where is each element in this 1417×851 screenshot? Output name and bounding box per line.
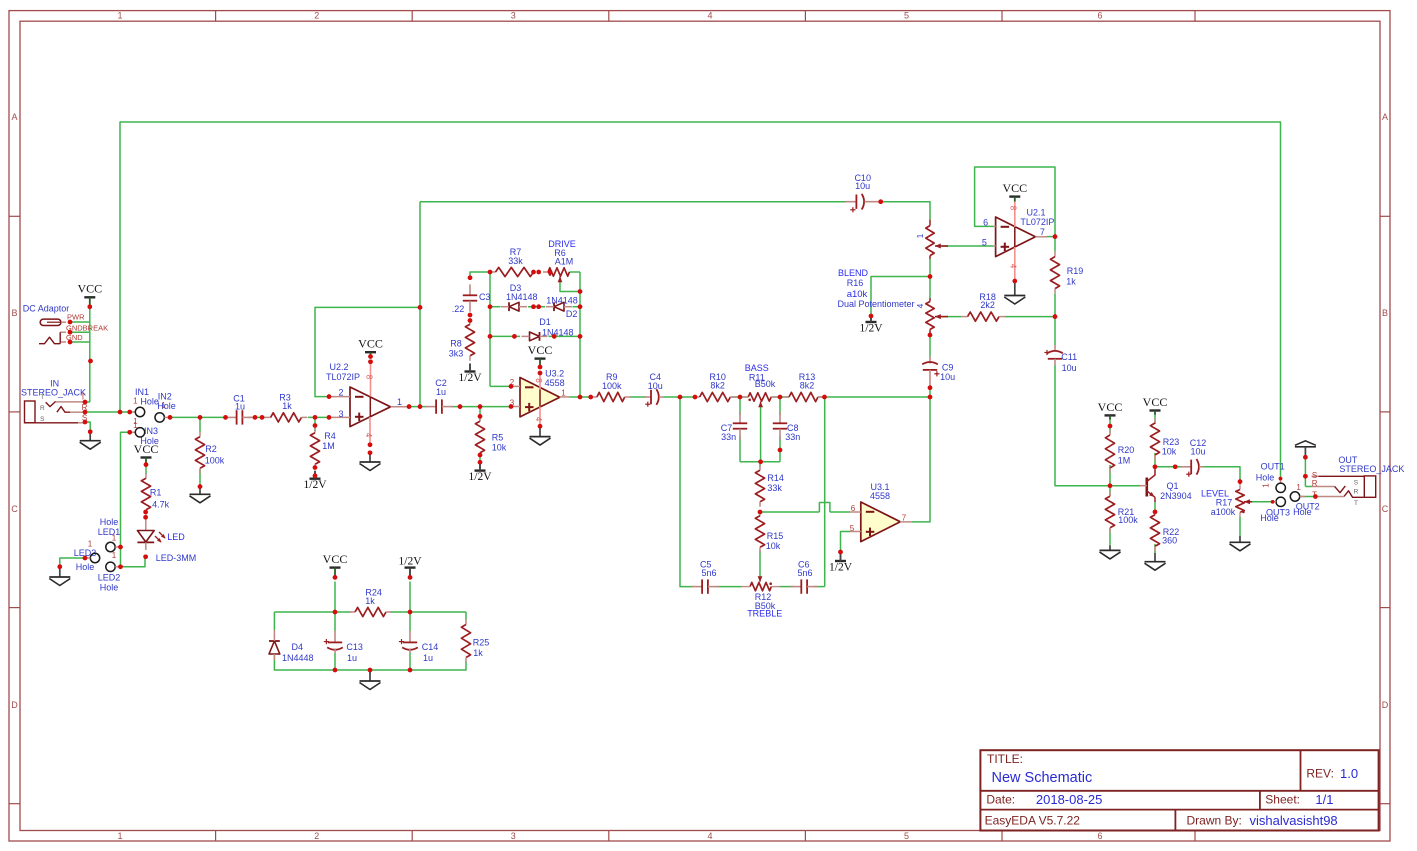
node C3 bottom	[468, 313, 473, 323]
connector IN STEREO_JACK	[21, 379, 88, 423]
svg-text:Hole: Hole	[1260, 513, 1279, 523]
wire C8 branch	[779, 397, 781, 462]
svg-text:R1: R1	[150, 488, 162, 498]
svg-text:R16: R16	[847, 278, 864, 288]
hole OUT1	[1256, 462, 1286, 493]
node R18 right	[1053, 314, 1058, 319]
svg-text:6: 6	[1097, 831, 1102, 841]
svg-text:GNDBREAK: GNDBREAK	[66, 323, 108, 332]
svg-text:Hole: Hole	[100, 583, 119, 593]
wire BLEND mid to 1/2V	[871, 277, 930, 317]
hole OUT2	[1290, 483, 1319, 517]
svg-text:New Schematic: New Schematic	[992, 770, 1093, 786]
svg-text:OUT1: OUT1	[1261, 462, 1285, 472]
capacitor C14 polarized	[399, 631, 438, 663]
svg-text:10k: 10k	[1162, 447, 1177, 457]
node R2 top	[198, 415, 203, 420]
net 1/2V (BLEND)	[860, 314, 884, 335]
node R13 right	[822, 395, 827, 400]
capacitor C3	[452, 284, 491, 314]
svg-text:A: A	[1382, 112, 1388, 122]
svg-text:C: C	[11, 504, 18, 514]
svg-text:1N4148: 1N4148	[542, 328, 574, 338]
hole IN3	[130, 421, 159, 446]
svg-text:.22: .22	[452, 304, 465, 314]
svg-text:1u: 1u	[436, 387, 446, 397]
svg-text:2N3904: 2N3904	[1160, 491, 1192, 501]
pin dot jack sleeve	[83, 420, 88, 425]
pin dot U2.2 pin3	[327, 415, 332, 420]
wire R2 branch	[199, 417, 201, 486]
svg-text:2: 2	[314, 11, 319, 21]
node R17 top	[1238, 479, 1243, 484]
pin dot LED3	[83, 556, 88, 561]
svg-text:10u: 10u	[1190, 447, 1205, 457]
pin dot R6	[548, 270, 553, 275]
svg-text:REV:: REV:	[1306, 767, 1334, 781]
net 1/2V (U3.1 pin5)	[829, 550, 853, 574]
op-amp U3.1 4558	[850, 482, 912, 542]
resistor R24	[349, 588, 392, 617]
capacitor C12 polarized	[1181, 438, 1207, 477]
svg-text:VCC: VCC	[1143, 395, 1168, 409]
capacitor C11 polarized	[1044, 345, 1077, 373]
svg-text:4558: 4558	[545, 378, 565, 388]
svg-text:VCC: VCC	[1002, 181, 1027, 195]
ground (power rail)	[360, 670, 381, 690]
svg-text:2k2: 2k2	[980, 300, 995, 310]
svg-text:Hole: Hole	[76, 562, 95, 572]
resistor R21	[1105, 491, 1138, 533]
svg-text:T: T	[40, 394, 44, 401]
svg-text:1/2V: 1/2V	[829, 562, 853, 574]
svg-text:C: C	[1382, 504, 1389, 514]
svg-text:3: 3	[511, 831, 516, 841]
svg-text:R15: R15	[767, 531, 784, 541]
connector P1 DC Adaptor	[23, 304, 108, 344]
potentiometer R6 DRIVE	[543, 239, 576, 282]
wire U2.1 feedback loop	[975, 167, 1055, 237]
ground (input jack sleeve)	[80, 430, 101, 450]
svg-text:LED-3MM: LED-3MM	[156, 553, 197, 563]
capacitor C9 polarized	[922, 357, 955, 388]
diode D2 1N4148	[546, 295, 578, 319]
power pin 8 U2.1	[1008, 202, 1017, 247]
svg-text:IN2: IN2	[158, 391, 172, 401]
resistor R18	[962, 292, 1005, 321]
wire treble row left	[680, 397, 694, 587]
power flag VCC (R20)	[1098, 400, 1123, 420]
ground (R21)	[1100, 546, 1121, 559]
svg-text:TREBLE: TREBLE	[747, 609, 782, 619]
svg-text:S: S	[1354, 480, 1359, 487]
node input wire to bypass loop	[118, 410, 123, 415]
svg-text:1N4148: 1N4148	[506, 292, 538, 302]
node on VCC rail	[88, 305, 93, 364]
potentiometer R11 BASS	[740, 363, 780, 407]
power pin 4 U2.1	[1008, 247, 1017, 281]
wire VCC rail to DC adaptor and jack tip	[70, 307, 90, 402]
power flag VCC (U2.2)	[358, 337, 383, 365]
capacitor C6	[790, 559, 818, 593]
svg-text:1u: 1u	[423, 653, 433, 663]
svg-text:5: 5	[982, 238, 987, 248]
wire BLEND bottom to C9	[929, 335, 931, 357]
svg-text:Sheet:: Sheet:	[1265, 793, 1300, 807]
node R1 bottom	[143, 510, 148, 520]
node bottom rail C13	[333, 668, 338, 673]
wire C9 branch	[929, 388, 931, 397]
svg-text:A1M: A1M	[555, 257, 574, 267]
net 1/2V (R5)	[469, 453, 493, 483]
capacitor C8	[773, 412, 801, 442]
wire jack sleeve to ground	[85, 422, 90, 432]
hole IN1	[130, 387, 159, 426]
svg-text:1k: 1k	[282, 401, 292, 411]
pin dot U3.2 pin2	[509, 384, 514, 389]
svg-text:A: A	[11, 112, 17, 122]
svg-text:6: 6	[1097, 11, 1102, 21]
wire U3.1 output up to tone row	[912, 397, 930, 522]
power flag VCC (DC adaptor)	[77, 282, 102, 307]
hole LED3	[74, 540, 100, 573]
wire IN2 to C1 / R3 / U2.2 pin3	[170, 416, 329, 418]
svg-text:10u: 10u	[940, 372, 955, 382]
wire D1 row	[490, 335, 580, 337]
power pin 4 U3.2	[534, 407, 543, 427]
svg-text:8: 8	[365, 375, 374, 380]
node OUT jack sleeve	[1303, 474, 1308, 479]
svg-text:1: 1	[112, 534, 117, 543]
svg-text:10u: 10u	[855, 181, 870, 191]
pin dot jack tip	[83, 400, 88, 405]
svg-text:VCC: VCC	[323, 552, 348, 566]
svg-text:R8: R8	[450, 339, 462, 349]
node C4 right	[678, 395, 698, 400]
node R6 wiper join	[578, 289, 583, 294]
node Q1 emitter	[1153, 510, 1158, 515]
node D3 right	[531, 304, 541, 309]
wire power section top rail	[274, 582, 466, 632]
resistor R1	[141, 465, 169, 515]
svg-text:1.0: 1.0	[1340, 766, 1358, 781]
capacitor C10 polarized	[846, 173, 881, 213]
svg-text:1u: 1u	[235, 401, 245, 411]
svg-text:1k: 1k	[473, 648, 483, 658]
pin dot PWR	[68, 320, 73, 325]
svg-text:Q1: Q1	[1167, 481, 1179, 491]
power flag VCC (R1)	[134, 442, 159, 464]
wire treble row right vertical	[717, 397, 825, 587]
node feedback tee	[418, 305, 423, 310]
power pin 8 U3.2	[534, 373, 543, 407]
svg-text:2: 2	[314, 831, 319, 841]
hole LED1	[98, 517, 121, 560]
svg-text:33k: 33k	[767, 483, 782, 493]
wire U2.2 feedback pin2 loop	[315, 307, 420, 396]
node R11 right / C8	[778, 395, 783, 400]
diode D4 1N4448	[269, 630, 314, 663]
wire U3.1 pin5 to 1/2V	[841, 532, 851, 553]
svg-text:STEREO_JACK: STEREO_JACK	[1339, 464, 1404, 474]
svg-text:4.7k: 4.7k	[152, 500, 170, 510]
resistor R10	[694, 372, 737, 402]
svg-text:4: 4	[364, 433, 373, 438]
wire D3 D2 row	[490, 306, 580, 308]
svg-text:R23: R23	[1163, 437, 1180, 447]
resistor R13	[783, 372, 824, 402]
svg-text:5n6: 5n6	[701, 568, 716, 578]
ground (R2)	[190, 484, 211, 502]
resistor R8	[449, 319, 475, 361]
svg-text:D: D	[1382, 700, 1389, 710]
svg-text:C3: C3	[479, 292, 491, 302]
pin dot IN2	[168, 415, 173, 420]
wire drive network left column	[470, 272, 511, 386]
diode D3 1N4148	[501, 283, 538, 311]
wire R18 row	[942, 316, 1055, 318]
node D3 left	[488, 304, 493, 309]
svg-text:VCC: VCC	[528, 343, 553, 357]
node R14 R15	[758, 510, 763, 515]
node R7 right	[531, 270, 541, 275]
wire top feedback row to C10	[420, 201, 846, 203]
wire top bypass loop from input node to OUT1	[120, 122, 1281, 479]
potentiometer R16 BLEND dual	[837, 220, 948, 335]
node bottom rail gnd	[368, 668, 373, 673]
svg-text:4: 4	[707, 11, 712, 21]
resistor R3	[265, 393, 308, 423]
svg-text:1: 1	[1262, 483, 1271, 488]
svg-text:Hole: Hole	[1256, 473, 1275, 483]
node tone rail center	[758, 460, 763, 465]
ground (OUT jack, inverted)	[1295, 441, 1316, 460]
svg-text:1: 1	[88, 540, 93, 549]
svg-text:1/2V: 1/2V	[469, 471, 493, 483]
svg-text:3: 3	[511, 11, 516, 21]
ground (U2.1 pin4)	[1004, 279, 1025, 304]
node R20 top	[1108, 424, 1113, 429]
svg-text:LED1: LED1	[98, 527, 121, 537]
node R16 bottom	[928, 333, 933, 338]
svg-text:1: 1	[397, 397, 402, 407]
svg-text:1: 1	[161, 401, 166, 410]
svg-text:D2: D2	[566, 309, 578, 319]
wire R23 column	[1154, 415, 1156, 467]
svg-text:5n6: 5n6	[797, 568, 812, 578]
svg-text:TL072IP: TL072IP	[1020, 217, 1054, 227]
svg-text:33n: 33n	[721, 432, 736, 442]
svg-text:7: 7	[1040, 227, 1045, 237]
svg-text:2018-08-25: 2018-08-25	[1036, 792, 1103, 807]
wire LED3 to ground	[60, 558, 85, 567]
svg-text:a100k: a100k	[1211, 507, 1236, 517]
svg-text:4: 4	[916, 303, 925, 308]
junction dot overlay	[58, 199, 1318, 672]
svg-text:10k: 10k	[492, 443, 507, 453]
wire R11 wiper down	[760, 406, 762, 462]
wire R5 branch	[479, 407, 481, 463]
node C8 bottom	[778, 448, 783, 453]
power flag VCC (R23)	[1143, 395, 1168, 415]
svg-text:100k: 100k	[602, 381, 622, 391]
ground (U2.2 pin4)	[360, 443, 381, 471]
svg-text:D4: D4	[292, 642, 304, 652]
svg-text:4: 4	[707, 831, 712, 841]
svg-text:33k: 33k	[508, 256, 523, 266]
svg-text:5: 5	[850, 524, 855, 533]
svg-text:8: 8	[534, 378, 543, 383]
node U2.1 output	[1053, 234, 1058, 239]
capacitor C13 polarized	[324, 631, 363, 663]
pin dot jack ring	[83, 410, 88, 415]
wire collector node to C12	[1155, 466, 1181, 468]
svg-text:1: 1	[112, 551, 117, 560]
svg-text:STEREO_JACK: STEREO_JACK	[21, 388, 86, 398]
svg-text:1N4148: 1N4148	[546, 295, 578, 305]
pin dot IN3	[127, 430, 132, 435]
svg-text:4: 4	[534, 417, 543, 422]
capacitor C7	[721, 412, 747, 442]
op-amp U3.2 4558	[510, 368, 570, 417]
wire C7 branch	[739, 397, 741, 462]
svg-text:10u: 10u	[1062, 363, 1077, 373]
svg-text:3k3: 3k3	[449, 349, 464, 359]
svg-text:B50k: B50k	[755, 379, 776, 389]
resistor R23	[1150, 418, 1179, 460]
wire R17 bottom to ground	[1239, 516, 1241, 536]
svg-text:B: B	[11, 308, 17, 318]
resistor R7	[490, 247, 534, 277]
resistor R9	[591, 372, 631, 402]
node D2 right	[578, 304, 583, 309]
resistor R2	[195, 432, 224, 474]
svg-text:6: 6	[851, 504, 856, 513]
svg-text:Drawn By:: Drawn By:	[1187, 814, 1242, 828]
op-amp U2.1 TL072IP	[982, 208, 1055, 257]
svg-text:10k: 10k	[766, 541, 781, 551]
svg-text:2: 2	[338, 387, 343, 397]
wire C11 branch down to Q1 base	[1055, 317, 1140, 486]
svg-text:100k: 100k	[205, 456, 225, 466]
svg-text:1: 1	[117, 831, 122, 841]
svg-text:R4: R4	[324, 431, 336, 441]
node after C1	[253, 415, 265, 420]
svg-text:R5: R5	[492, 433, 504, 443]
transistor Q1 2N3904	[1140, 467, 1192, 502]
pin dot U3.2 pin3	[509, 404, 514, 409]
svg-text:Dual Potentiometer: Dual Potentiometer	[837, 299, 914, 309]
node U2.2 output	[407, 404, 423, 409]
resistor R5	[475, 416, 506, 458]
wire drive network right column	[570, 272, 581, 397]
svg-text:1N4448: 1N4448	[282, 653, 314, 663]
ground (R17)	[1230, 536, 1251, 551]
power pin 4 U2.2	[364, 417, 373, 445]
wire LED cathode to LED2	[121, 557, 146, 567]
svg-text:U2.2: U2.2	[329, 362, 348, 372]
svg-text:T: T	[1354, 500, 1358, 507]
pin dot GNDBREAK	[68, 330, 73, 335]
svg-text:10u: 10u	[648, 381, 663, 391]
wire U2.1 output to R19	[1047, 237, 1055, 317]
svg-text:S: S	[40, 416, 45, 423]
svg-text:100k: 100k	[1118, 515, 1138, 525]
wire output row to C2 to U3.2 pin3	[409, 406, 511, 408]
wire OUT2 to jack tip	[1300, 496, 1316, 498]
svg-text:BLEND: BLEND	[838, 268, 869, 278]
node C9 bottom	[928, 385, 933, 399]
svg-text:LED2: LED2	[98, 573, 121, 583]
svg-text:8k2: 8k2	[800, 381, 815, 391]
svg-text:R14: R14	[767, 473, 784, 483]
connector OUT STEREO_JACK	[1312, 455, 1405, 507]
svg-text:Date:: Date:	[986, 793, 1015, 807]
wire tone stack top row	[731, 396, 931, 398]
resistor R20	[1105, 430, 1134, 473]
wire C12 to R17	[1204, 467, 1241, 482]
svg-text:U3.2: U3.2	[545, 368, 564, 378]
node bottom rail C14	[408, 668, 413, 673]
svg-text:IN3: IN3	[144, 426, 158, 436]
svg-text:1: 1	[117, 11, 122, 21]
svg-text:R25: R25	[473, 638, 490, 648]
potentiometer R17 LEVEL	[1201, 482, 1252, 517]
svg-text:R: R	[1312, 479, 1318, 488]
svg-text:1: 1	[133, 397, 138, 406]
ground (LED3)	[49, 564, 70, 585]
svg-text:1u: 1u	[347, 653, 357, 663]
svg-text:4: 4	[1008, 264, 1017, 269]
svg-text:1/2V: 1/2V	[860, 323, 884, 335]
svg-text:1/2V: 1/2V	[459, 372, 483, 384]
net 1/2V (R8)	[459, 364, 483, 385]
svg-text:Hole: Hole	[100, 517, 119, 527]
node D1 right	[552, 334, 582, 339]
svg-text:B: B	[1382, 308, 1388, 318]
wire U2.2 output node vertical	[419, 202, 421, 407]
svg-text:R: R	[40, 405, 45, 412]
hole OUT3	[1260, 497, 1290, 523]
pin dot OUT3	[1271, 500, 1275, 504]
resistor R25	[461, 620, 489, 663]
svg-text:D1: D1	[539, 317, 551, 327]
hole IN2	[155, 391, 176, 422]
wire R14 junction to U3.1 pin6 with hop	[760, 503, 850, 513]
svg-text:LED: LED	[167, 532, 185, 542]
svg-text:C13: C13	[346, 642, 363, 652]
ground (U3.2 pin4)	[530, 424, 551, 445]
svg-text:1: 1	[916, 233, 925, 238]
node Q1 base	[1108, 483, 1113, 488]
power flag VCC (U3.2)	[528, 343, 553, 375]
svg-text:360: 360	[1162, 536, 1177, 546]
svg-text:1M: 1M	[322, 441, 335, 451]
resistor R14	[755, 462, 783, 507]
wire R6 wiper to right terminal	[560, 282, 580, 292]
pin dot U2.2 pin2	[327, 394, 332, 399]
svg-text:R19: R19	[1067, 266, 1084, 276]
wire IN3 to LED1	[121, 432, 130, 567]
node rail 1/2V	[408, 610, 413, 615]
svg-text:1k: 1k	[1066, 277, 1076, 287]
net 1/2V (R4)	[304, 465, 328, 491]
svg-text:VCC: VCC	[77, 282, 102, 296]
node R7 left	[488, 270, 493, 275]
resistor R19	[1050, 252, 1083, 294]
node LED cathode	[143, 555, 148, 560]
node after C2	[458, 404, 463, 409]
